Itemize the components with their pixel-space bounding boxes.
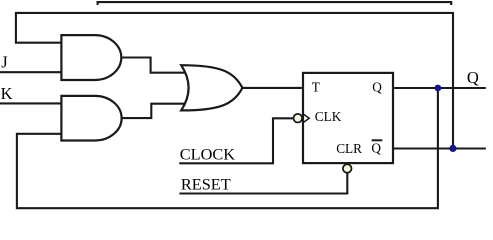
wire: top AND output jog to OR upper input [121, 58, 186, 73]
wire: J input lead [1, 71, 61, 73]
wire: K input lead [1, 102, 62, 104]
wire: Q feedback to bottom AND input (left/bottom loop) [17, 88, 438, 208]
svg-text:T: T [312, 80, 320, 95]
svg-text:RESET: RESET [181, 174, 231, 193]
wire: Q output [393, 87, 485, 89]
junction dot on Qbar wire [449, 145, 456, 152]
CLR inversion bubble [343, 164, 352, 173]
AND gate G2 (K AND Q) [61, 96, 121, 141]
svg-text:CLOCK: CLOCK [180, 144, 235, 163]
svg-text:J: J [1, 52, 8, 71]
wire: bottom AND output jog to OR lower input [122, 104, 187, 118]
OR gate G3 [181, 65, 242, 110]
AND gate G1 (J AND Qbar) [61, 35, 121, 80]
clock inversion bubble [294, 114, 303, 123]
clock dynamic-edge triangle [304, 114, 309, 122]
svg-text:Q: Q [467, 68, 479, 87]
wire: top horizontal segment [98, 2, 452, 4]
svg-text:Q: Q [372, 79, 382, 94]
svg-text:Q: Q [371, 141, 381, 156]
svg-text:CLK: CLK [315, 109, 342, 124]
pin label Qbar (Q with overbar) [371, 140, 382, 155]
wire: Qbar output [393, 147, 485, 149]
junction dot on Q wire [435, 85, 442, 92]
wire: Qbar feedback to top AND input (left/top/right loop) [16, 13, 453, 149]
wire: CLOCK lead to CLK bubble [180, 118, 293, 163]
svg-text:K: K [1, 84, 13, 103]
svg-text:CLR: CLR [336, 141, 362, 156]
T flip-flop U1 box [303, 73, 393, 163]
wire: OR output to T input [242, 87, 303, 89]
wire: RESET lead to CLR bubble [180, 173, 347, 193]
